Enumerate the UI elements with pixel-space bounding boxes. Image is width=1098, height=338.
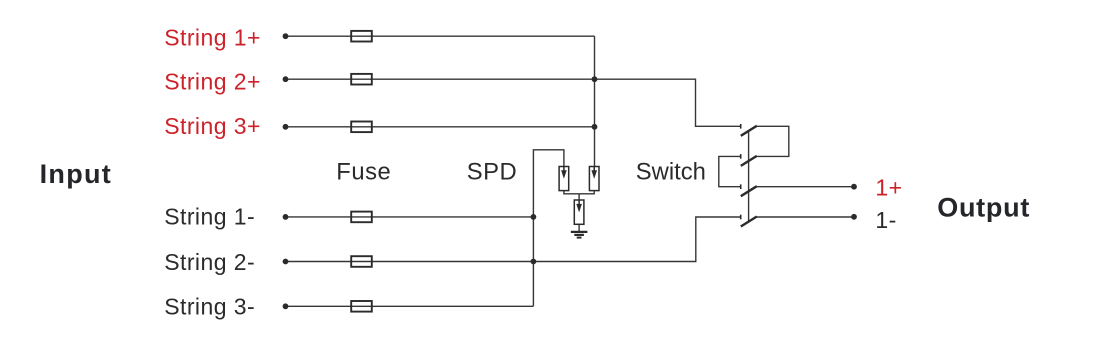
label Fuse (336, 159, 391, 186)
label String 3+ (164, 113, 261, 139)
svg-text:String 2+: String 2+ (164, 69, 261, 95)
svg-text:Input: Input (40, 159, 112, 189)
wire String 3- row (286, 305, 534, 307)
svg-text:Fuse: Fuse (336, 159, 391, 186)
label output 1- (875, 207, 896, 233)
fuse F4 (351, 212, 372, 223)
terminal node String 3- (283, 303, 289, 309)
label output 1+ (875, 175, 902, 201)
wire String 3+ row (286, 126, 595, 128)
wire PV+ bus vertical (594, 36, 596, 167)
SPD arrester left (559, 167, 569, 191)
svg-text:String 3-: String 3- (164, 293, 255, 319)
switch S1 pole 3 blade (741, 186, 757, 196)
junction node bus- row1 (531, 214, 537, 220)
label SPD (467, 159, 517, 186)
junction node bus- row2 (531, 259, 537, 265)
wire output 1- (756, 216, 854, 218)
svg-text:String 1+: String 1+ (164, 24, 261, 50)
fuse F5 (351, 256, 372, 267)
wire SPD interconnect (564, 191, 594, 200)
terminal node output 1+ (851, 184, 857, 190)
switch linkage bar (748, 131, 750, 223)
svg-text:1-: 1- (875, 207, 896, 233)
switch S1 pole 4 contact (740, 215, 742, 220)
label Output (937, 192, 1030, 222)
wire switch pole2 to pole3 left loop (719, 156, 740, 186)
wire SPD to ground (578, 224, 580, 231)
terminal node String 1+ (283, 33, 289, 39)
svg-text:Switch: Switch (636, 159, 706, 186)
SPD arrester right (589, 167, 599, 191)
label String 2+ (164, 69, 261, 95)
fuse F2 (351, 74, 372, 85)
junction node bus+ row2 (592, 76, 598, 82)
ground (571, 232, 588, 238)
wire String 1- row (286, 216, 534, 218)
wire output 1+ (757, 186, 854, 188)
terminal node output 1- (851, 214, 857, 220)
switch S1 pole 1 contact (740, 124, 742, 129)
svg-text:Output: Output (937, 192, 1030, 222)
svg-text:String 3+: String 3+ (164, 113, 261, 139)
junction node bus+ row3 (592, 124, 598, 130)
wire String 2+ row (286, 79, 741, 126)
switch S1 pole 4 blade (741, 217, 757, 227)
switch S1 pole 1 blade (741, 126, 757, 136)
terminal node String 2- (283, 259, 289, 265)
switch S1 pole 2 blade (741, 156, 757, 166)
label String 3- (164, 293, 255, 319)
svg-text:1+: 1+ (875, 175, 902, 201)
label String 1- (164, 203, 255, 229)
terminal node String 2+ (283, 76, 289, 82)
SPD arrester bottom (574, 200, 584, 224)
fuse F3 (351, 122, 372, 133)
svg-text:String 1-: String 1- (164, 203, 255, 229)
wire switch pole1 to pole2 right loop (756, 126, 788, 156)
label String 2- (164, 249, 255, 275)
label Switch (636, 159, 706, 186)
terminal node String 3+ (283, 124, 289, 130)
label String 1+ (164, 24, 261, 50)
label Input (40, 159, 112, 189)
terminal node String 1- (283, 214, 289, 220)
svg-text:SPD: SPD (467, 159, 517, 186)
switch S1 pole 2 contact (740, 154, 742, 159)
fuse F1 (351, 31, 372, 42)
svg-text:String 2-: String 2- (164, 249, 255, 275)
wire String 2- row (286, 217, 741, 262)
fuse F6 (351, 301, 372, 312)
wire String 1+ row (286, 35, 595, 37)
switch S1 pole 3 contact (740, 184, 742, 189)
wire PV- bus vertical (533, 150, 564, 306)
